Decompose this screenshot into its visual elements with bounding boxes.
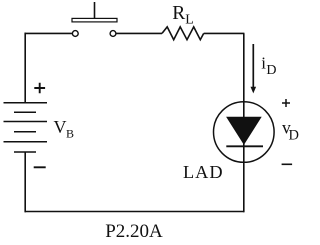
wire: top-left horizontal from corner to switch left terminal xyxy=(25,32,73,34)
svg-text:LAD: LAD xyxy=(183,162,224,182)
wire: left vertical from battery bottom plate to bottom corner xyxy=(24,152,26,212)
LED triangle (anode) xyxy=(227,117,261,144)
current arrow iD shaft xyxy=(252,44,254,88)
switch S1 right terminal circle xyxy=(110,31,116,37)
wire: from resistor to top-right corner xyxy=(204,32,245,34)
svg-text:P2.20A: P2.20A xyxy=(105,221,163,242)
wire: from switch right terminal to resistor xyxy=(116,32,162,34)
label plus (vD polarity) xyxy=(282,99,290,107)
svg-text:RL: RL xyxy=(172,3,194,27)
battery VB plate short 3 xyxy=(14,151,36,153)
resistor RL zigzag xyxy=(162,27,204,40)
battery VB plate long 3 xyxy=(4,141,48,143)
wire: right vertical through LED down to bottom corner xyxy=(243,33,245,212)
battery VB plate short 1 xyxy=(14,111,36,113)
current arrow iD head xyxy=(251,87,257,94)
LED circle outline xyxy=(214,102,275,163)
battery VB plate short 2 xyxy=(14,131,36,133)
label minus (battery polarity) xyxy=(34,166,46,168)
svg-text:iD: iD xyxy=(261,53,276,78)
switch S1 left terminal circle xyxy=(72,31,78,37)
battery VB plate long 2 xyxy=(4,121,48,123)
wire: left vertical from top corner down to battery top plate xyxy=(24,33,26,103)
label minus (vD polarity) xyxy=(282,163,293,165)
switch S1 pushbutton bar xyxy=(72,18,117,22)
svg-text:vD: vD xyxy=(282,118,299,144)
LED cathode bar xyxy=(226,145,263,147)
label plus (battery polarity) xyxy=(34,83,45,94)
svg-text:VB: VB xyxy=(54,117,75,141)
switch S1 pushbutton stem xyxy=(94,2,96,18)
wire: bottom horizontal xyxy=(25,211,245,213)
battery VB plate long 1 xyxy=(4,102,48,104)
